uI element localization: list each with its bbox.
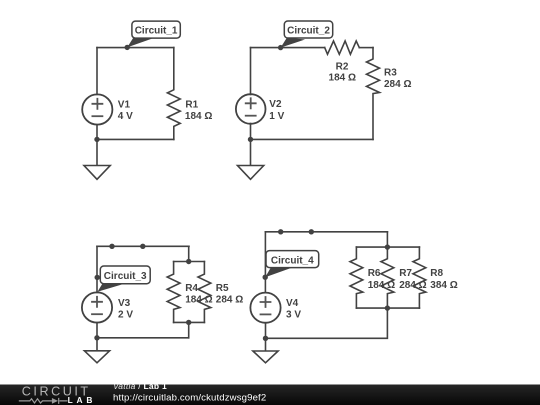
svg-text:184 Ω: 184 Ω [329, 73, 356, 84]
resistor R1 [167, 48, 180, 140]
svg-text:V1: V1 [118, 100, 131, 111]
wire c3 bank feed [188, 246, 190, 261]
resistor R6 [350, 247, 363, 308]
resistor R5 [198, 262, 211, 323]
svg-text:vattia / Lab 1: vattia / Lab 1 [114, 381, 167, 391]
node c4 bottom junction [263, 336, 268, 341]
node c4 left junction [263, 275, 268, 280]
ground c3 [84, 338, 109, 363]
node c3 top-a [109, 244, 114, 249]
svg-text:R5: R5 [216, 283, 229, 294]
wire c3 left [96, 246, 98, 292]
svg-text:384 Ω: 384 Ω [430, 280, 457, 291]
svg-text:Circuit_1: Circuit_1 [135, 26, 178, 37]
svg-text:184 Ω: 184 Ω [368, 280, 395, 291]
wire c1 source-bottom [96, 125, 98, 140]
svg-text:http://circuitlab.com/ckutdzws: http://circuitlab.com/ckutdzwsg9ef2 [113, 393, 266, 404]
label Circuit_3 [98, 266, 151, 292]
resistor R2 [325, 41, 360, 54]
wire c3 bank down [188, 322, 190, 337]
label Circuit_1 [125, 21, 181, 50]
voltage source V2 [236, 94, 266, 124]
wire c3 bank top bar [174, 261, 205, 263]
node c2 bottom junction [248, 137, 253, 142]
node c3 bank bottom [186, 320, 191, 325]
wire c4 bank feed [386, 232, 388, 247]
svg-text:184 Ω: 184 Ω [185, 295, 212, 306]
svg-text:V3: V3 [118, 298, 131, 309]
wire c4 bank bottom bar [356, 307, 419, 309]
wire c4 top [265, 231, 387, 233]
wire c3 bottom [97, 337, 189, 339]
ground c1 [84, 139, 110, 179]
wire c4 source-bottom [265, 323, 267, 339]
ground c2 [238, 139, 264, 179]
node c3 top-b [140, 244, 145, 249]
svg-text:R3: R3 [384, 67, 397, 78]
svg-text:R2: R2 [336, 61, 349, 72]
node c4 top-b [309, 229, 314, 234]
svg-text:Circuit_3: Circuit_3 [104, 271, 147, 282]
node c1 bottom junction [94, 137, 99, 142]
wire c3 bank bottom bar [174, 321, 205, 323]
node c3 left junction [95, 275, 100, 280]
wire c1 bottom [97, 138, 174, 140]
svg-text:R8: R8 [430, 268, 443, 279]
resistor R7 [381, 247, 394, 308]
svg-text:2 V: 2 V [118, 309, 133, 320]
wire c2 right-top [359, 47, 373, 49]
svg-text:R6: R6 [368, 268, 381, 279]
node c4 bank top [385, 244, 390, 249]
wire c2 source-bottom [250, 124, 252, 140]
resistor R3 [367, 48, 380, 140]
resistor R8 [413, 247, 426, 308]
wire c1 top [97, 47, 174, 49]
resistor R4 [167, 262, 180, 323]
label Circuit_2 [278, 21, 333, 50]
svg-text:284 Ω: 284 Ω [216, 295, 243, 306]
wire c4 bottom [266, 308, 388, 338]
wire c3 top [97, 245, 189, 247]
wire c4 left [264, 232, 266, 293]
svg-text:284 Ω: 284 Ω [399, 280, 426, 291]
svg-text:LAB: LAB [68, 395, 97, 405]
wire c1 left [96, 48, 98, 95]
wire c2 top [251, 47, 325, 49]
voltage source V1 [82, 94, 112, 124]
svg-text:V2: V2 [269, 99, 282, 110]
node c4 bank bottom [385, 305, 390, 310]
logo waveform [19, 398, 68, 404]
wire c2 bottom [251, 138, 374, 140]
svg-text:R7: R7 [399, 268, 412, 279]
wire c3 source-bottom [96, 323, 98, 338]
wire c2 left [250, 48, 252, 95]
node c3 bottom junction [94, 335, 99, 340]
ground c4 [253, 338, 278, 363]
svg-text:1 V: 1 V [269, 111, 284, 122]
node c3 bank top [186, 259, 191, 264]
voltage source V4 [250, 293, 280, 323]
wire c4 bank top bar [356, 246, 419, 248]
svg-text:R4: R4 [185, 283, 198, 294]
node c4 top-a [278, 229, 283, 234]
svg-text:4 V: 4 V [118, 111, 133, 122]
voltage source V3 [82, 292, 112, 322]
svg-text:3 V: 3 V [286, 310, 301, 321]
svg-text:284 Ω: 284 Ω [384, 79, 411, 90]
svg-text:184 Ω: 184 Ω [185, 111, 212, 122]
label Circuit_4 [265, 251, 319, 278]
svg-text:R1: R1 [185, 99, 198, 110]
svg-text:Circuit_2: Circuit_2 [287, 26, 330, 37]
svg-text:V4: V4 [286, 298, 299, 309]
svg-text:Circuit_4: Circuit_4 [271, 255, 314, 266]
